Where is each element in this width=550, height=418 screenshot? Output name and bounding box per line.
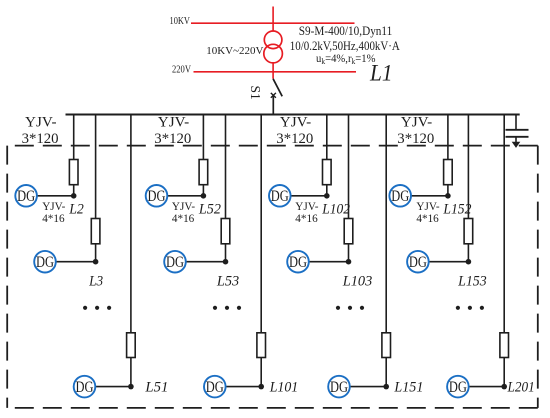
svg-text:L201: L201 (507, 380, 535, 396)
svg-text:L2: L2 (68, 202, 84, 218)
svg-text:DG: DG (271, 188, 289, 205)
svg-text:L1: L1 (369, 61, 392, 86)
svg-text:YJV-: YJV- (158, 115, 190, 131)
capacitor C1 (506, 115, 529, 137)
bus 220V busbar (66, 114, 520, 116)
fuse F2b (221, 219, 230, 244)
wire node to DG row1 group 4 (411, 195, 448, 197)
svg-text:L153: L153 (457, 274, 487, 290)
svg-text:YJV-: YJV- (295, 201, 318, 213)
ellipsis dots group 1 (83, 306, 111, 310)
svg-text:YJV-: YJV- (25, 115, 57, 131)
svg-text:L52: L52 (198, 202, 221, 218)
wire branch L53 drop (225, 115, 227, 219)
wire branch L101 drop (260, 115, 262, 333)
generator DG (row3, group 2) (204, 376, 226, 398)
node L53 junction (223, 259, 229, 265)
wire node to DG row1 group 1 (37, 195, 74, 197)
fuse F1a (69, 160, 78, 185)
fuse F4c (500, 333, 509, 358)
svg-text:220V: 220V (172, 64, 191, 76)
generator DG (row3, group 3) (328, 376, 350, 398)
wire fuse to node L151 (385, 358, 387, 387)
node L103 junction (346, 259, 352, 265)
node L101 junction (258, 384, 264, 390)
generator DG (row2, group 3) (287, 251, 309, 273)
svg-text:YJV-: YJV- (172, 201, 195, 213)
wire branch L152 drop (447, 115, 449, 160)
wire branch L3 drop (95, 115, 97, 219)
node L153 junction (466, 259, 472, 265)
svg-text:DG: DG (166, 254, 184, 271)
wire fuse to node L53 (225, 244, 227, 262)
svg-text:4*16: 4*16 (416, 213, 439, 225)
fuse F3a (323, 160, 332, 185)
svg-text:L3: L3 (88, 274, 103, 290)
node L201 junction (501, 384, 507, 390)
svg-text:L152: L152 (442, 202, 471, 218)
node L102 junction (324, 193, 330, 199)
wire node to DG row3 group 3 (350, 386, 386, 388)
wire node to DG row3 group 2 (226, 386, 262, 388)
generator DG (row1, group 1) (15, 185, 37, 207)
svg-text:DG: DG (17, 188, 35, 205)
cable label YJV-4*16 L52 (172, 201, 221, 225)
generator DG (row1, group 4) (389, 185, 411, 207)
wire branch L52 drop (202, 115, 204, 160)
cable label YJV-3*120 group 1 (22, 115, 59, 147)
wire node to DG row2 group 4 (429, 261, 469, 263)
svg-text:uk=4%,rk=1%: uk=4%,rk=1% (316, 51, 376, 66)
wire branch L2 drop (73, 115, 75, 160)
wire node to DG row1 group 2 (167, 195, 203, 197)
svg-text:10KV~220V: 10KV~220V (206, 45, 263, 57)
wire node to DG row3 group 4 (469, 386, 505, 388)
cable label YJV-3*120 group 4 (397, 115, 434, 147)
svg-text:DG: DG (289, 254, 307, 271)
svg-text:4*16: 4*16 (172, 213, 195, 225)
generator DG (row2, group 1) (34, 251, 56, 273)
node L52 junction (201, 193, 207, 199)
svg-text:L53: L53 (216, 274, 239, 290)
ellipsis dots group 3 (336, 306, 364, 310)
svg-text:3*120: 3*120 (154, 131, 191, 147)
wire fuse to node L201 (503, 358, 505, 387)
cable label YJV-3*120 group 3 (276, 115, 313, 147)
transformer T1 10KV~220V (206, 31, 282, 63)
fuse F1b (91, 219, 100, 244)
wire fuse to node L51 (130, 358, 132, 387)
transformer nameplate text (290, 24, 400, 66)
dashed enclosure box (7, 146, 538, 408)
svg-text:S1: S1 (248, 86, 263, 100)
fuse F4b (464, 219, 473, 244)
svg-text:L151: L151 (393, 380, 423, 396)
svg-text:3*120: 3*120 (22, 131, 59, 147)
ellipsis dots group 2 (213, 306, 241, 310)
fuse F3c (382, 333, 391, 358)
svg-text:S9-M-400/10,Dyn11: S9-M-400/10,Dyn11 (299, 24, 393, 38)
generator DG (row2, group 4) (407, 251, 429, 273)
svg-text:10KV: 10KV (170, 15, 191, 27)
svg-text:DG: DG (36, 254, 54, 271)
wire node to DG row2 group 1 (56, 261, 96, 263)
cable label YJV-4*16 L102 (295, 201, 350, 225)
wire branch L102 drop (326, 115, 328, 160)
node L152 junction (445, 193, 451, 199)
wire fuse to node L3 (95, 244, 97, 262)
wire fuse to node L102 (326, 185, 328, 196)
wire node to DG row2 group 2 (186, 261, 226, 263)
fuse F4a (444, 160, 453, 185)
generator DG (row1, group 2) (146, 185, 168, 207)
fuse F2a (199, 160, 208, 185)
wire fuse to node L153 (467, 244, 469, 262)
wire node to DG row3 group 1 (95, 386, 131, 388)
svg-text:DG: DG (330, 379, 348, 396)
net 220V line (172, 64, 356, 76)
wire fuse to node L152 (447, 185, 449, 196)
svg-text:L51: L51 (144, 380, 168, 396)
svg-text:DG: DG (409, 254, 427, 271)
wire branch L103 drop (348, 115, 350, 219)
wire branch L51 drop (130, 115, 132, 333)
svg-text:L103: L103 (342, 274, 372, 290)
generator DG (row2, group 2) (164, 251, 186, 273)
fuse F3b (344, 219, 353, 244)
wire primary feeder (red vertical) (272, 7, 274, 79)
node L2 junction (71, 193, 77, 199)
svg-text:L102: L102 (321, 202, 350, 218)
svg-text:L101: L101 (269, 380, 298, 396)
wire branch L153 drop (467, 115, 469, 219)
svg-text:3*120: 3*120 (276, 131, 313, 147)
node L151 junction (383, 384, 389, 390)
svg-text:DG: DG (449, 379, 467, 396)
cable label YJV-4*16 L152 (416, 201, 471, 225)
fuse F2c (257, 333, 266, 358)
cable label YJV-3*120 group 2 (154, 115, 191, 147)
wire branch L151 drop (385, 115, 387, 333)
generator DG (row1, group 3) (269, 185, 291, 207)
switch S1 (248, 79, 282, 115)
net 10KV line (170, 15, 355, 27)
ground arrow (512, 137, 521, 148)
svg-text:DG: DG (391, 188, 409, 205)
wire fuse to node L101 (260, 358, 262, 387)
wire node to DG row1 group 3 (291, 195, 327, 197)
svg-text:DG: DG (148, 188, 166, 205)
node L3 junction (93, 259, 99, 265)
wire branch L201 drop (503, 115, 505, 333)
svg-text:YJV-: YJV- (280, 115, 312, 131)
ellipsis dots group 4 (456, 306, 484, 310)
generator DG (row3, group 4) (447, 376, 469, 398)
node L51 junction (128, 384, 134, 390)
cable label YJV-4*16 L2 (42, 201, 84, 225)
wire fuse to node L52 (202, 185, 204, 196)
svg-text:4*16: 4*16 (42, 213, 65, 225)
svg-text:DG: DG (206, 379, 224, 396)
svg-text:DG: DG (76, 379, 94, 396)
svg-text:YJV-: YJV- (42, 201, 65, 213)
svg-text:3*120: 3*120 (397, 131, 434, 147)
wire node to DG row2 group 3 (309, 261, 349, 263)
svg-text:4*16: 4*16 (295, 213, 318, 225)
wire fuse to node L2 (73, 185, 75, 196)
svg-text:YJV-: YJV- (401, 115, 433, 131)
svg-text:YJV-: YJV- (416, 201, 439, 213)
generator DG (row3, group 1) (74, 376, 96, 398)
wire fuse to node L103 (348, 244, 350, 262)
fuse F1c (127, 333, 136, 358)
